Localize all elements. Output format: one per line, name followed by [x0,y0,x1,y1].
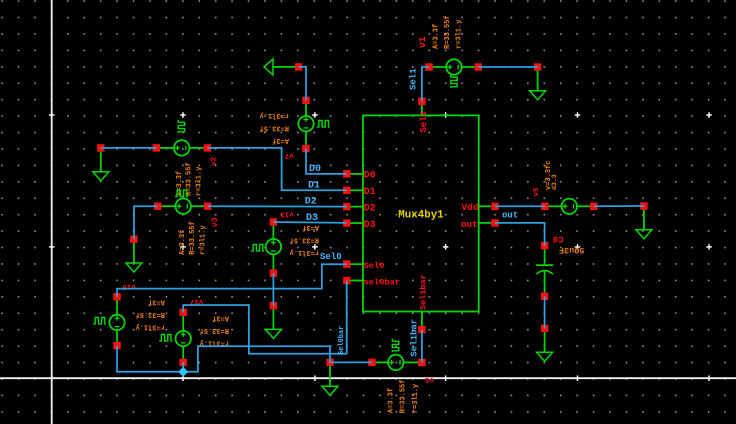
svg-text:r=3l1.y: r=3l1.y [289,248,319,256]
vpulse V3 (D2 source) [154,190,220,255]
node: highlighted junction diamond [178,367,188,377]
pin D2 of U1 [343,203,376,215]
pin out of U1 [461,219,499,230]
wire: vdc right to gnd6 [594,205,644,207]
svg-text:D3: D3 [306,213,318,224]
svg-text:out: out [502,211,518,221]
svg-text:v13: v13 [280,210,294,218]
svg-text:D0: D0 [364,171,376,182]
wire net D1: V2 right to U1 D1 [207,148,346,190]
wire net Sel0bar: V17 top to U1 sel0bar [183,281,347,354]
wire: Y axis crosshair [0,377,736,379]
vpulse V2 (D1 source) [153,120,219,196]
wire net Sel1bar: V11 right to U1 bottom pin [421,330,423,363]
wire net D0: V7 bottom to U1 D0 [306,149,347,174]
svg-text:Mux4by1: Mux4by1 [398,209,444,221]
svg-text:C0: C0 [553,233,564,243]
svg-text:out: out [461,219,478,230]
wire: V3 left to gnd2 [134,206,158,239]
wire: V17 bottom to junction diamond [182,362,184,371]
wire: V1 right terminal to gnd5 [478,66,537,68]
svg-text:Sel0bar: Sel0bar [338,326,346,355]
pin Sel1bar of U1 (bottom) [418,274,428,333]
svg-text:R=33.5f: R=33.5f [200,326,229,334]
wire net D3: V13 top to U1 D3 [273,221,346,224]
wire net Sel0: V15 top to U1 Sel0 [117,264,347,297]
svg-text:Sel0: Sel0 [320,252,342,262]
vpulse V13 (D3 source) [251,210,319,277]
svg-text:A=3.3f: A=3.3f [388,388,396,413]
svg-text:sel0bar: sel0bar [364,277,401,287]
wire: V13 bottom to gnd4 [272,273,274,305]
svg-text:r=3l1.y: r=3l1.y [199,225,207,255]
ground gnd1 (left of V2) [93,144,109,181]
svg-text:A=3.3f: A=3.3f [179,230,187,255]
wire: gnd1 to V2 left [101,147,157,149]
ground gnd2 (left of V3) [126,236,142,273]
ground gnd3 (top, left-pointing, for V7) [264,59,302,75]
svg-text:D2: D2 [364,203,376,214]
svg-text:R=33.55f: R=33.55f [189,221,197,255]
svg-text:v7: v7 [285,151,294,159]
svg-text:r=3l1.y: r=3l1.y [456,19,464,49]
wire: junction diamond to gnd8 [183,346,330,372]
wire net Sel1: V1 to U1 top pin [422,67,429,101]
svg-text:r=3l1.y: r=3l1.y [195,166,203,196]
wire: X axis crosshair [51,0,53,424]
wire net Vdd: U1 Vdd to vdc left [495,205,545,207]
wire: gnd3 to V7 top [299,67,306,101]
ground gnd4 (below V13) [265,302,281,339]
vpulse V1 (Sel1 source) [417,15,482,88]
wire: C0 bottom to gnd7 [544,296,546,328]
svg-text:R=33.55f: R=33.55f [444,15,452,49]
svg-text:D3: D3 [364,220,376,231]
pin D1 of U1 [343,187,376,199]
svg-text:r=3l1.y: r=3l1.y [135,323,165,331]
ground gnd7 (below C0) [537,325,553,362]
svg-text:A=3f: A=3f [212,313,229,321]
vpulse V17 (sel0bar source) [159,297,229,366]
svg-text:50u3F: 50u3F [559,245,585,255]
svg-text:r=3l1.y: r=3l1.y [199,338,229,346]
svg-text:D2: D2 [305,197,317,208]
svg-text:Sel1bar: Sel1bar [410,319,420,357]
pin Sel1 of U1 (top) [418,98,429,133]
pin Sel0 of U1 [343,261,384,272]
svg-text:D1: D1 [364,187,376,198]
svg-text:D1: D1 [308,181,320,192]
svg-text:R=33.5f: R=33.5f [135,310,164,318]
svg-text:v1: v1 [417,36,428,48]
svg-text:R=33.5f: R=33.5f [260,124,289,132]
svg-text:R=33.5f: R=33.5f [290,235,319,243]
svg-text:v3: v3 [211,217,220,227]
svg-text:D0: D0 [309,164,321,175]
svg-text:v5: v5 [533,187,541,197]
wire net D2: V3 right to U1 D2 [208,205,347,207]
wire net out: U1 out to C0 top [495,223,545,246]
vpulse V15 (Sel0 source) [93,282,165,349]
svg-text:v1: v1 [425,375,435,383]
svg-text:Sel0: Sel0 [364,261,385,271]
svg-text:v2: v2 [211,156,219,166]
svg-text:Sel1: Sel1 [419,110,429,132]
pin sel0bar of U1 [343,277,400,288]
svg-text:A=3.3f: A=3.3f [433,24,441,49]
svg-text:d3.3: d3.3 [551,174,558,190]
svg-text:Vdd: Vdd [461,202,478,213]
node: major grid markers [49,112,712,381]
ground gnd6 (right of vdc) [636,202,652,239]
svg-text:r=3l1.y: r=3l1.y [412,383,420,413]
svg-text:A=3f: A=3f [148,298,165,306]
vpulse V11 (Sel1bar source) [368,339,434,413]
vdc V5 (Vdd supply) [533,161,598,214]
wire: V15 bottom to junction diamond [117,346,183,372]
ground gnd8 (below V11 return) [322,359,338,396]
svg-text:v17: v17 [190,297,204,305]
vpulse V7 (D0 source) [259,97,330,159]
mux U1 Mux4by1 symbol body [363,115,479,311]
svg-text:Sel1bar: Sel1bar [419,274,429,310]
svg-text:A=3f: A=3f [272,136,289,144]
svg-text:R=33.55f: R=33.55f [400,380,408,414]
svg-text:r=3l1.y: r=3l1.y [259,111,289,119]
capacitor C0 [536,233,584,300]
svg-text:Sel1: Sel1 [409,68,419,90]
pin D3 of U1 [343,219,376,231]
pin Vdd of U1 [461,202,498,213]
wire: V11 left terminal to gnd8 [330,361,372,363]
pin D0 of U1 [343,170,376,182]
ground gnd5 (right of V1) [530,63,546,100]
